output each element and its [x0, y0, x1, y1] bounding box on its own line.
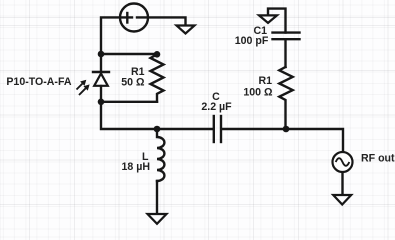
resistor R1 (50 ohm) — [151, 54, 164, 102]
resistor R1 (100 ohm) — [279, 67, 292, 129]
svg-text:50 Ω: 50 Ω — [121, 76, 145, 88]
ground — [333, 195, 351, 205]
photodiode D1 — [77, 72, 110, 95]
svg-text:100 pF: 100 pF — [235, 35, 269, 47]
wire — [341, 173, 343, 195]
wire — [284, 39, 286, 67]
svg-text:R1: R1 — [258, 75, 272, 87]
capacitor C1 — [273, 33, 300, 40]
svg-text:2.2 µF: 2.2 µF — [201, 101, 232, 113]
wire — [268, 9, 286, 33]
ground — [177, 26, 195, 34]
inductor L — [157, 129, 164, 181]
junction — [154, 126, 161, 133]
svg-text:RF out: RF out — [361, 153, 395, 165]
wire — [100, 86, 102, 102]
ground — [259, 15, 277, 23]
wire — [100, 54, 102, 72]
svg-text:18 µH: 18 µH — [122, 161, 150, 173]
junction — [283, 126, 290, 133]
dc source V1 — [120, 4, 148, 32]
wire — [101, 17, 132, 54]
wire — [101, 102, 213, 129]
svg-text:P10-TO-A-FA: P10-TO-A-FA — [6, 76, 71, 88]
capacitor C — [214, 116, 221, 142]
wire — [101, 53, 157, 55]
ac source RF out — [333, 152, 353, 172]
node A — [98, 51, 105, 58]
svg-text:100 Ω: 100 Ω — [243, 86, 273, 98]
junction — [154, 51, 161, 58]
wire — [222, 129, 343, 152]
ground — [148, 214, 167, 224]
wire — [156, 181, 158, 214]
wire — [101, 101, 157, 103]
wire — [137, 17, 186, 25]
node B — [98, 99, 105, 106]
